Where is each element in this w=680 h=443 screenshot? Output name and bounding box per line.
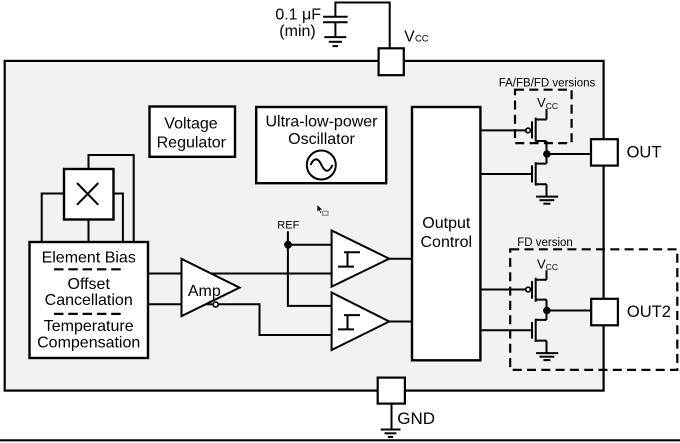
svg-text:(min): (min) [279, 23, 315, 40]
svg-text:FD version: FD version [517, 237, 573, 249]
svg-text:Regulator: Regulator [157, 134, 227, 151]
svg-text:FA/FB/FD versions: FA/FB/FD versions [499, 78, 596, 90]
svg-text:Control: Control [421, 234, 473, 251]
svg-text:Oscillator: Oscillator [288, 131, 355, 148]
svg-text:Ultra-low-power: Ultra-low-power [265, 113, 378, 130]
svg-text:OUT2: OUT2 [627, 303, 671, 321]
svg-text:VCC: VCC [404, 28, 429, 45]
svg-text:Amp: Amp [188, 283, 221, 300]
svg-text:Compensation: Compensation [37, 335, 140, 352]
svg-text:GND: GND [397, 409, 435, 428]
svg-text:Cancellation: Cancellation [45, 292, 133, 309]
svg-text:Element Bias: Element Bias [42, 250, 136, 267]
svg-text:0.1 μF: 0.1 μF [275, 7, 321, 24]
svg-text:OUT: OUT [627, 143, 662, 161]
svg-text:REF: REF [277, 219, 299, 231]
svg-text:Output: Output [422, 215, 471, 232]
svg-text:Voltage: Voltage [164, 115, 217, 132]
svg-text:Temperature: Temperature [44, 318, 134, 335]
svg-text:Offset: Offset [68, 276, 111, 293]
